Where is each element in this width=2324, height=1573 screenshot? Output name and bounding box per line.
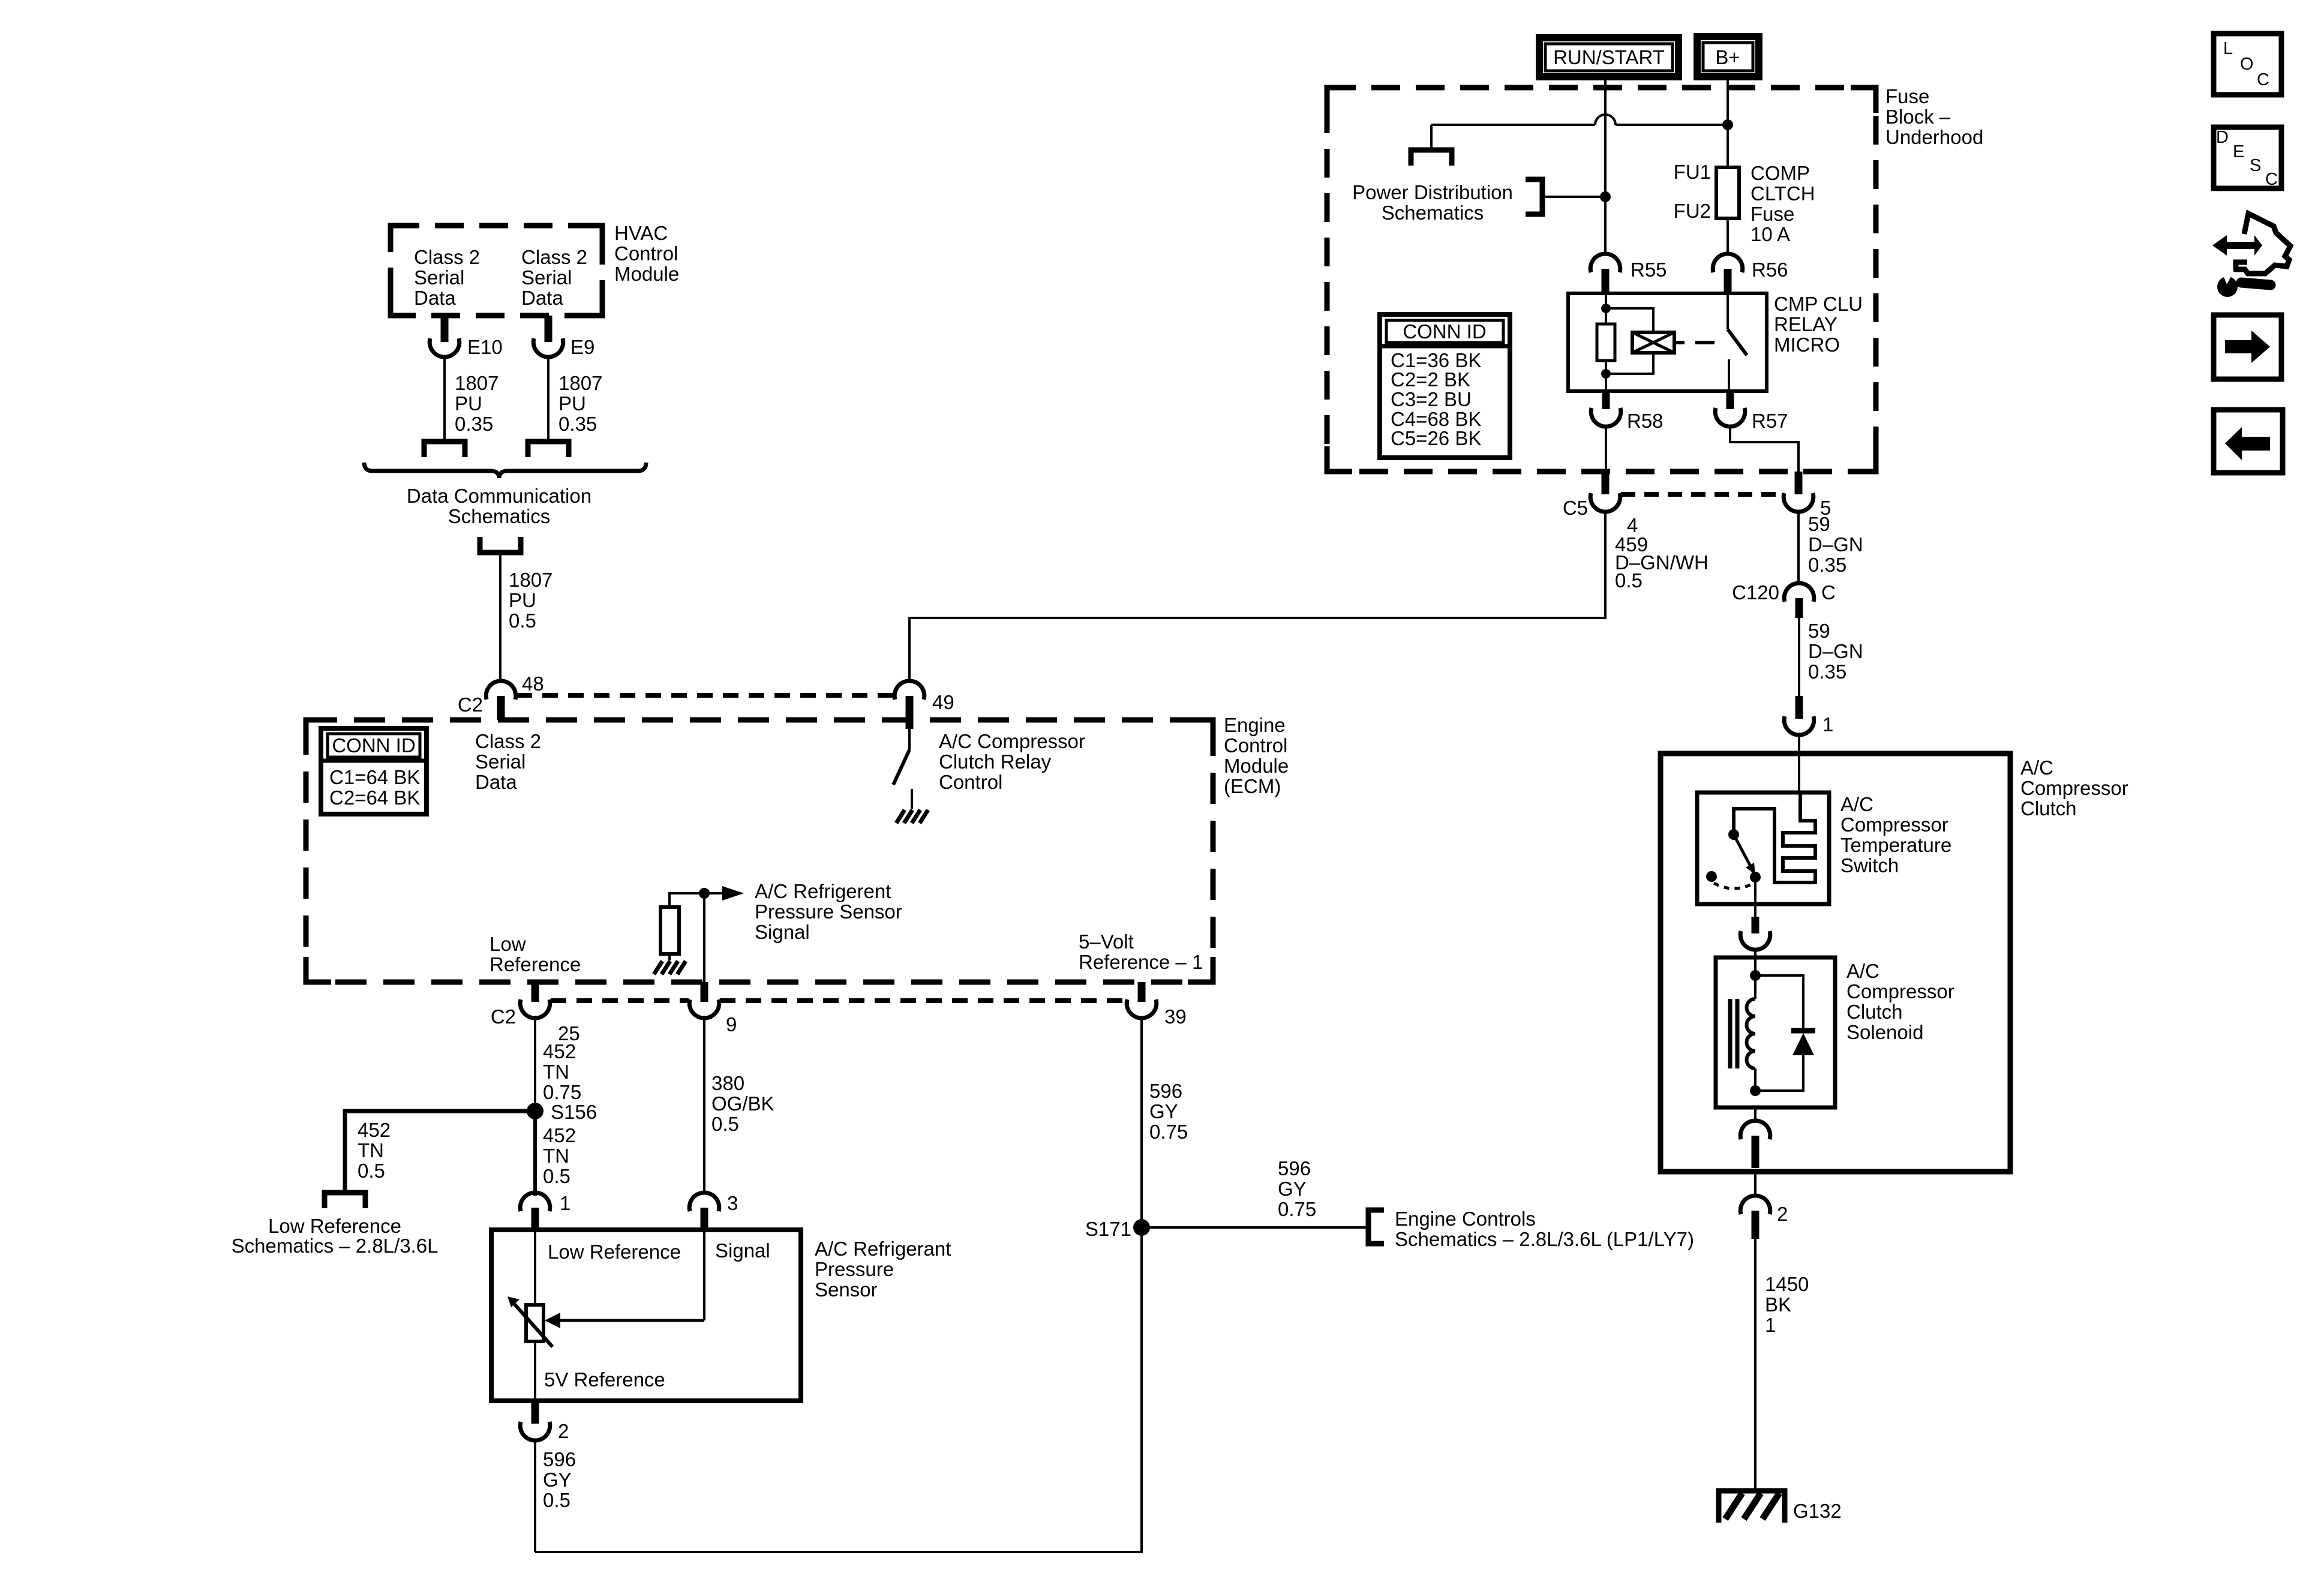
svg-text:Schematics – 2.8L/3.6L (LP1/LY: Schematics – 2.8L/3.6L (LP1/LY7) bbox=[1395, 1228, 1694, 1250]
svg-text:Schematics: Schematics bbox=[1382, 202, 1484, 224]
svg-text:O: O bbox=[2240, 55, 2254, 74]
svg-text:0.35: 0.35 bbox=[559, 413, 597, 435]
svg-text:Control: Control bbox=[614, 242, 678, 265]
svg-text:CMP CLU: CMP CLU bbox=[1774, 293, 1863, 315]
svg-text:PU: PU bbox=[455, 392, 482, 415]
svg-text:3: 3 bbox=[727, 1192, 738, 1214]
svg-text:E: E bbox=[2233, 142, 2244, 161]
svg-text:0.75: 0.75 bbox=[1149, 1121, 1188, 1143]
svg-text:Signal: Signal bbox=[715, 1239, 770, 1262]
svg-text:E9: E9 bbox=[571, 336, 594, 358]
svg-text:Compressor: Compressor bbox=[1840, 813, 1948, 836]
svg-text:Fuse: Fuse bbox=[1885, 85, 1929, 107]
svg-text:C120: C120 bbox=[1732, 581, 1779, 604]
svg-text:D–GN: D–GN bbox=[1808, 533, 1863, 556]
svg-text:1450: 1450 bbox=[1765, 1273, 1809, 1295]
svg-text:C2=2 BK: C2=2 BK bbox=[1391, 368, 1470, 391]
svg-text:A/C Refrigerent: A/C Refrigerent bbox=[755, 880, 891, 902]
svg-text:48: 48 bbox=[522, 673, 544, 695]
svg-text:TN: TN bbox=[358, 1139, 384, 1161]
svg-text:D: D bbox=[2216, 128, 2229, 147]
svg-text:380: 380 bbox=[711, 1072, 744, 1094]
svg-text:Low: Low bbox=[490, 933, 526, 955]
svg-text:Clutch: Clutch bbox=[1846, 1001, 1903, 1023]
svg-text:Class 2: Class 2 bbox=[475, 730, 541, 752]
svg-text:0.35: 0.35 bbox=[1808, 554, 1846, 576]
svg-text:A/C: A/C bbox=[2020, 757, 2053, 779]
svg-text:0.5: 0.5 bbox=[543, 1489, 571, 1511]
svg-text:0.5: 0.5 bbox=[358, 1160, 385, 1182]
svg-text:CLTCH: CLTCH bbox=[1750, 182, 1815, 205]
svg-text:A/C: A/C bbox=[1846, 960, 1879, 982]
svg-text:Module: Module bbox=[614, 263, 679, 285]
svg-text:452: 452 bbox=[543, 1124, 576, 1146]
svg-text:0.35: 0.35 bbox=[455, 413, 493, 435]
svg-text:Solenoid: Solenoid bbox=[1846, 1021, 1923, 1043]
svg-text:G132: G132 bbox=[1793, 1500, 1842, 1522]
svg-text:COMP: COMP bbox=[1750, 162, 1810, 184]
svg-text:GY: GY bbox=[1278, 1178, 1307, 1200]
svg-text:Clutch Relay: Clutch Relay bbox=[939, 751, 1052, 773]
svg-text:Low Reference: Low Reference bbox=[268, 1215, 401, 1237]
svg-text:Class 2: Class 2 bbox=[414, 246, 480, 268]
svg-text:FU1: FU1 bbox=[1674, 161, 1711, 183]
svg-text:R58: R58 bbox=[1627, 410, 1664, 432]
svg-text:0.5: 0.5 bbox=[509, 610, 536, 632]
svg-text:Clutch: Clutch bbox=[2020, 797, 2077, 819]
svg-text:Engine Controls: Engine Controls bbox=[1395, 1208, 1536, 1230]
svg-text:C: C bbox=[1821, 581, 1836, 604]
svg-text:596: 596 bbox=[1278, 1157, 1311, 1179]
svg-text:Power Distribution: Power Distribution bbox=[1352, 181, 1513, 203]
svg-text:Reference – 1: Reference – 1 bbox=[1079, 951, 1203, 973]
svg-text:0.5: 0.5 bbox=[543, 1165, 571, 1187]
svg-text:FU2: FU2 bbox=[1674, 200, 1711, 222]
svg-text:Compressor: Compressor bbox=[2020, 777, 2128, 799]
svg-text:CONN ID: CONN ID bbox=[332, 734, 415, 757]
svg-text:Data: Data bbox=[414, 287, 456, 309]
svg-text:Schematics: Schematics bbox=[448, 505, 551, 527]
svg-text:B+: B+ bbox=[1715, 46, 1740, 68]
svg-text:452: 452 bbox=[543, 1040, 576, 1062]
svg-text:1807: 1807 bbox=[455, 372, 499, 394]
svg-text:A/C Compressor: A/C Compressor bbox=[939, 730, 1085, 752]
svg-text:Pressure Sensor: Pressure Sensor bbox=[755, 900, 902, 923]
svg-text:Reference: Reference bbox=[490, 953, 581, 975]
svg-text:10 A: 10 A bbox=[1750, 223, 1790, 245]
svg-text:OG/BK: OG/BK bbox=[711, 1092, 774, 1115]
svg-text:Module: Module bbox=[1224, 755, 1289, 777]
svg-text:Control: Control bbox=[1224, 734, 1287, 757]
svg-text:1807: 1807 bbox=[559, 372, 602, 394]
svg-text:GY: GY bbox=[543, 1469, 572, 1491]
svg-text:Data: Data bbox=[475, 771, 517, 793]
svg-text:Serial: Serial bbox=[475, 751, 526, 773]
svg-text:596: 596 bbox=[1149, 1080, 1182, 1102]
svg-text:R55: R55 bbox=[1631, 259, 1667, 281]
svg-text:Serial: Serial bbox=[521, 266, 572, 289]
svg-text:Fuse: Fuse bbox=[1750, 203, 1794, 225]
svg-text:GY: GY bbox=[1149, 1100, 1178, 1122]
svg-text:S171: S171 bbox=[1085, 1218, 1131, 1240]
svg-text:A/C: A/C bbox=[1840, 793, 1873, 815]
svg-text:Engine: Engine bbox=[1224, 714, 1286, 736]
svg-text:R57: R57 bbox=[1752, 410, 1788, 432]
svg-text:Schematics – 2.8L/3.6L: Schematics – 2.8L/3.6L bbox=[232, 1235, 439, 1257]
svg-text:(ECM): (ECM) bbox=[1224, 775, 1281, 797]
svg-text:MICRO: MICRO bbox=[1774, 334, 1840, 356]
svg-text:0.5: 0.5 bbox=[1615, 569, 1643, 592]
svg-text:R56: R56 bbox=[1752, 259, 1788, 281]
svg-text:5V Reference: 5V Reference bbox=[544, 1368, 665, 1391]
svg-text:0.5: 0.5 bbox=[711, 1113, 739, 1135]
svg-text:D–GN: D–GN bbox=[1808, 640, 1863, 662]
svg-text:S156: S156 bbox=[551, 1101, 597, 1123]
svg-text:1: 1 bbox=[560, 1192, 571, 1214]
svg-text:1807: 1807 bbox=[509, 569, 553, 591]
svg-text:C2: C2 bbox=[458, 694, 483, 716]
svg-text:Data: Data bbox=[521, 287, 563, 309]
svg-text:CONN ID: CONN ID bbox=[1403, 320, 1486, 343]
svg-text:E10: E10 bbox=[467, 336, 503, 358]
svg-text:Pressure: Pressure bbox=[815, 1258, 894, 1280]
svg-text:L: L bbox=[2223, 39, 2233, 58]
svg-text:S: S bbox=[2250, 156, 2261, 175]
svg-text:59: 59 bbox=[1808, 513, 1830, 535]
svg-text:TN: TN bbox=[543, 1061, 569, 1083]
svg-text:C1=64 BK: C1=64 BK bbox=[329, 766, 420, 788]
svg-text:49: 49 bbox=[932, 691, 954, 713]
svg-text:RUN/START: RUN/START bbox=[1553, 46, 1665, 68]
svg-text:2: 2 bbox=[558, 1420, 569, 1442]
svg-text:Block –: Block – bbox=[1885, 106, 1951, 128]
svg-text:0.75: 0.75 bbox=[543, 1081, 581, 1103]
svg-text:Signal: Signal bbox=[755, 921, 810, 943]
svg-text:C: C bbox=[2257, 70, 2269, 89]
svg-text:596: 596 bbox=[543, 1448, 576, 1470]
svg-text:452: 452 bbox=[358, 1119, 391, 1141]
svg-text:0.75: 0.75 bbox=[1278, 1198, 1316, 1220]
svg-text:C2=64 BK: C2=64 BK bbox=[329, 786, 420, 809]
svg-text:5–Volt: 5–Volt bbox=[1079, 930, 1134, 953]
svg-text:9: 9 bbox=[726, 1013, 737, 1035]
svg-text:Compressor: Compressor bbox=[1846, 980, 1954, 1002]
svg-text:Low Reference: Low Reference bbox=[548, 1241, 681, 1263]
svg-text:PU: PU bbox=[509, 589, 536, 611]
svg-text:BK: BK bbox=[1765, 1293, 1791, 1316]
svg-text:39: 39 bbox=[1164, 1005, 1187, 1028]
svg-text:HVAC: HVAC bbox=[614, 222, 668, 244]
svg-text:Control: Control bbox=[939, 771, 1002, 793]
svg-text:1: 1 bbox=[1765, 1314, 1776, 1336]
svg-text:59: 59 bbox=[1808, 620, 1830, 642]
svg-text:2: 2 bbox=[1777, 1203, 1788, 1225]
svg-text:Switch: Switch bbox=[1840, 854, 1899, 876]
svg-text:A/C Refrigerant: A/C Refrigerant bbox=[815, 1238, 951, 1260]
svg-text:C3=2 BU: C3=2 BU bbox=[1391, 388, 1472, 410]
svg-text:Temperature: Temperature bbox=[1840, 834, 1951, 856]
svg-text:C5=26 BK: C5=26 BK bbox=[1391, 427, 1481, 449]
svg-text:PU: PU bbox=[559, 392, 586, 415]
svg-text:1: 1 bbox=[1822, 713, 1833, 736]
svg-text:0.35: 0.35 bbox=[1808, 661, 1846, 683]
svg-text:C: C bbox=[2265, 170, 2278, 189]
svg-text:Sensor: Sensor bbox=[815, 1278, 878, 1301]
svg-text:Class 2: Class 2 bbox=[521, 246, 587, 268]
svg-text:TN: TN bbox=[543, 1145, 569, 1167]
svg-text:C5: C5 bbox=[1563, 497, 1588, 519]
svg-text:Serial: Serial bbox=[414, 266, 464, 289]
svg-text:Underhood: Underhood bbox=[1885, 126, 1983, 148]
svg-text:C2: C2 bbox=[491, 1005, 516, 1028]
svg-text:RELAY: RELAY bbox=[1774, 313, 1837, 335]
svg-text:Data Communication: Data Communication bbox=[407, 485, 591, 507]
